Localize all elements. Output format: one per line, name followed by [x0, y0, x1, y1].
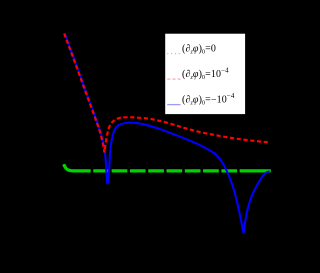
- green curve solid tail: [240, 169, 271, 172]
- green curve dashed body: [75, 169, 241, 172]
- green curve (dphi)0=0: [64, 164, 76, 171]
- legend sample dotted green: [167, 53, 180, 55]
- red dashed curve (dphi)0=1e-4: [64, 34, 268, 153]
- legend sample solid blue: [167, 104, 180, 106]
- legend box: [165, 33, 246, 114]
- svg-text:(∂zφ)0=0: (∂zφ)0=0: [182, 44, 216, 56]
- legend sample dashed red: [167, 78, 180, 80]
- blue curve (dphi)0=-1e-4: [65, 34, 270, 233]
